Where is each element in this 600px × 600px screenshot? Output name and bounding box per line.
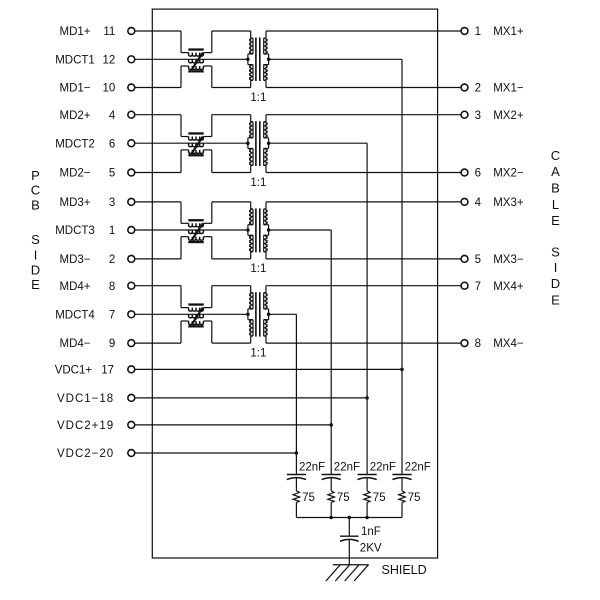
svg-text:22nF: 22nF bbox=[370, 461, 396, 473]
svg-text:4: 4 bbox=[475, 197, 482, 209]
transformer T1 secondary winding bbox=[265, 31, 267, 38]
transformer T4 primary winding bbox=[250, 286, 252, 293]
transformer T1 primary winding bbox=[250, 31, 252, 38]
junction VDC1− to column bbox=[365, 396, 369, 400]
choke L2 winding-sense stroke bbox=[192, 137, 203, 154]
svg-text:MX4−: MX4− bbox=[493, 338, 524, 350]
pin terminal MDCT4 bbox=[128, 311, 135, 318]
capacitor C1 22nF bbox=[287, 474, 306, 476]
junction T4 primary centre tap bbox=[246, 313, 250, 317]
wire choke L3 to transformer T3 primary top bbox=[212, 201, 251, 203]
svg-text:MDCT4: MDCT4 bbox=[55, 309, 95, 321]
junction T3 secondary centre tap bbox=[267, 228, 271, 232]
svg-text:7: 7 bbox=[475, 281, 481, 293]
wire MD2+ jog down bbox=[180, 115, 182, 137]
common-mode choke L1 bbox=[188, 48, 203, 50]
wire MD1+ pin to choke bbox=[135, 30, 181, 32]
transformer T2 core bbox=[255, 121, 257, 166]
wire choke L3 out jog down bbox=[211, 237, 213, 259]
svg-text:B: B bbox=[31, 197, 40, 212]
transformer T1 core bbox=[255, 38, 257, 82]
transformer T3 core bbox=[255, 208, 257, 252]
svg-text:MD3+: MD3+ bbox=[60, 197, 91, 209]
pin terminal VDC1− bbox=[128, 394, 135, 401]
wire choke L1 out jog up bbox=[211, 31, 213, 53]
wire MD4+ pin to choke bbox=[135, 285, 181, 287]
svg-text:MD4−: MD4− bbox=[60, 338, 91, 350]
svg-text:C: C bbox=[551, 148, 560, 163]
wire VDC1+ feed bbox=[135, 368, 402, 370]
wire MD1- jog up bbox=[180, 66, 182, 88]
svg-text:9: 9 bbox=[109, 338, 115, 350]
wire MX4- transformer to pin bbox=[266, 342, 461, 344]
wire MDCT2 pin to primary tap bbox=[135, 142, 248, 144]
wire T2 secondary tap to termination column bbox=[269, 142, 368, 144]
svg-text:S: S bbox=[31, 232, 40, 247]
svg-text:MX2−: MX2− bbox=[493, 168, 524, 180]
wire MD3+ jog down bbox=[180, 202, 182, 223]
svg-text:2: 2 bbox=[475, 83, 481, 95]
module body outline bbox=[152, 9, 437, 558]
svg-text:3: 3 bbox=[109, 197, 115, 209]
wire termination column 2 bbox=[330, 230, 332, 475]
wire MX3- transformer to pin bbox=[266, 258, 461, 260]
transformer T2 secondary winding bbox=[265, 115, 267, 122]
wire MD4- jog up bbox=[180, 321, 182, 343]
svg-text:1nF: 1nF bbox=[361, 526, 381, 538]
svg-text:MX4+: MX4+ bbox=[493, 281, 524, 293]
junction T2 secondary centre tap bbox=[267, 141, 271, 145]
wire choke L1 to transformer T1 primary top bbox=[212, 30, 251, 32]
pin terminal MD2− bbox=[128, 169, 135, 176]
junction rail to C5 bbox=[348, 516, 352, 520]
svg-text:MDCT1: MDCT1 bbox=[55, 54, 95, 66]
svg-text:10: 10 bbox=[103, 83, 116, 95]
junction VDC1+ to column bbox=[400, 368, 404, 372]
svg-text:B: B bbox=[551, 181, 560, 196]
wire R4 to common rail bbox=[401, 503, 403, 518]
pin terminal MD4+ bbox=[128, 282, 135, 289]
wire T1 secondary tap to termination column bbox=[269, 58, 402, 60]
pin terminal MX1+ bbox=[461, 28, 468, 35]
junction rail col3 bbox=[365, 516, 369, 520]
pin terminal MX2− bbox=[461, 169, 468, 176]
junction VDC2+ to column bbox=[329, 423, 333, 427]
svg-text:E: E bbox=[551, 292, 560, 307]
transformer T4 core bbox=[255, 292, 257, 336]
wire MD2+ pin to choke bbox=[135, 114, 181, 116]
pin terminal MDCT1 bbox=[128, 56, 135, 63]
resistor R1 75 bbox=[293, 491, 300, 503]
wire choke L3 out jog up bbox=[211, 202, 213, 223]
svg-text:6: 6 bbox=[109, 138, 115, 150]
svg-text:17: 17 bbox=[101, 365, 114, 377]
common-mode choke L3 bbox=[188, 219, 203, 221]
svg-text:E: E bbox=[31, 277, 40, 292]
svg-text:75: 75 bbox=[302, 492, 315, 504]
svg-text:11: 11 bbox=[103, 26, 115, 38]
pin terminal MD4− bbox=[128, 340, 135, 347]
pin terminal MX4− bbox=[461, 340, 468, 347]
wire MDCT4 pin to primary tap bbox=[135, 313, 248, 315]
pin terminal MD3− bbox=[128, 255, 135, 262]
transformer T4 secondary winding bbox=[265, 286, 267, 293]
svg-text:MD1+: MD1+ bbox=[60, 26, 91, 38]
svg-text:D: D bbox=[551, 276, 560, 291]
pin terminal MX3+ bbox=[461, 198, 468, 205]
junction T3 primary centre tap bbox=[246, 228, 250, 232]
svg-text:MX3−: MX3− bbox=[493, 254, 524, 266]
svg-text:MX3+: MX3+ bbox=[493, 197, 524, 209]
junction T1 primary centre tap bbox=[246, 58, 250, 62]
svg-text:75: 75 bbox=[408, 492, 421, 504]
pin terminal MDCT2 bbox=[128, 140, 135, 147]
resistor R3 75 bbox=[364, 491, 371, 503]
wire MX4+ transformer to pin bbox=[266, 285, 461, 287]
pin terminal MD1− bbox=[128, 84, 135, 91]
wire MD3- jog up bbox=[180, 237, 182, 259]
wire C5 to shield ground bbox=[348, 539, 350, 565]
pin terminal MD2+ bbox=[128, 111, 135, 118]
wire MDCT3 pin to primary tap bbox=[135, 229, 248, 231]
wire choke L4 to transformer T4 primary bottom bbox=[212, 342, 251, 344]
wire MD1- pin to choke bbox=[135, 87, 181, 89]
wire MDCT1 pin to primary tap bbox=[135, 58, 248, 60]
wire choke L4 out jog down bbox=[211, 321, 213, 343]
svg-text:1:1: 1:1 bbox=[250, 263, 266, 275]
wire MD1+ jog down bbox=[180, 31, 182, 53]
wire MX2- transformer to pin bbox=[266, 172, 461, 174]
svg-text:1: 1 bbox=[109, 225, 115, 237]
transformer T3 secondary winding bbox=[265, 202, 267, 209]
svg-text:SHIELD: SHIELD bbox=[382, 563, 427, 577]
svg-text:5: 5 bbox=[109, 168, 115, 180]
wire C4 to R4 bbox=[401, 478, 403, 491]
wire termination column 1 bbox=[295, 314, 297, 474]
svg-text:MD4+: MD4+ bbox=[60, 281, 91, 293]
wire MD4- pin to choke bbox=[135, 342, 181, 344]
wire VDC2− feed bbox=[135, 452, 297, 454]
wire choke L1 to transformer T1 primary bottom bbox=[212, 87, 251, 89]
wire choke L4 to transformer T4 primary top bbox=[212, 285, 251, 287]
svg-text:MD2+: MD2+ bbox=[60, 110, 91, 122]
svg-text:VDC2+19: VDC2+19 bbox=[57, 420, 114, 432]
pin terminal MX2+ bbox=[461, 111, 468, 118]
svg-text:1:1: 1:1 bbox=[250, 347, 266, 359]
choke L1 winding-sense stroke bbox=[192, 53, 203, 70]
svg-text:8: 8 bbox=[109, 281, 115, 293]
svg-text:MX2+: MX2+ bbox=[493, 110, 524, 122]
svg-text:MX1−: MX1− bbox=[493, 83, 524, 95]
pin terminal MD3+ bbox=[128, 198, 135, 205]
wire choke L2 out jog down bbox=[211, 150, 213, 173]
pin terminal VDC2− bbox=[128, 450, 135, 457]
svg-text:6: 6 bbox=[475, 168, 481, 180]
chassis ground SHIELD bbox=[333, 564, 369, 566]
svg-text:3: 3 bbox=[475, 110, 481, 122]
wire choke L4 out jog up bbox=[211, 286, 213, 308]
wire choke L2 to transformer T2 primary bottom bbox=[212, 172, 251, 174]
wire choke L1 out jog down bbox=[211, 66, 213, 88]
wire R3 to common rail bbox=[366, 503, 368, 518]
pin terminal MD1+ bbox=[128, 28, 135, 35]
svg-text:5: 5 bbox=[475, 254, 481, 266]
transformer T3 primary winding bbox=[250, 202, 252, 209]
common-mode choke L2 bbox=[188, 132, 203, 134]
svg-text:22nF: 22nF bbox=[405, 461, 431, 473]
wire MD3- pin to choke bbox=[135, 258, 181, 260]
wire C2 to R2 bbox=[330, 478, 332, 491]
svg-text:E: E bbox=[551, 213, 560, 228]
svg-text:L: L bbox=[552, 197, 559, 212]
pin terminal MX3− bbox=[461, 255, 468, 262]
wire choke L3 to transformer T3 primary bottom bbox=[212, 258, 251, 260]
svg-text:VDC2−20: VDC2−20 bbox=[57, 448, 114, 460]
resistor R4 75 bbox=[399, 491, 406, 503]
wire rail to C5 bbox=[348, 518, 350, 537]
capacitor C2 22nF bbox=[322, 474, 341, 476]
wire C3 to R3 bbox=[366, 478, 368, 491]
pin terminal MDCT3 bbox=[128, 227, 135, 234]
junction rail col2 bbox=[329, 516, 333, 520]
pin terminal MX1− bbox=[461, 84, 468, 91]
svg-text:1:1: 1:1 bbox=[250, 177, 266, 189]
junction VDC2− to column bbox=[295, 451, 299, 455]
svg-text:A: A bbox=[551, 164, 560, 179]
svg-text:I: I bbox=[34, 248, 38, 263]
wire MD2- jog up bbox=[180, 150, 182, 173]
svg-text:VDC1+: VDC1+ bbox=[55, 365, 93, 377]
wire T4 secondary tap to termination column bbox=[269, 313, 297, 315]
wire R1 to common rail bbox=[295, 503, 297, 518]
svg-text:P: P bbox=[31, 168, 40, 183]
svg-text:75: 75 bbox=[337, 492, 350, 504]
wire MX1- transformer to pin bbox=[266, 87, 461, 89]
svg-text:D: D bbox=[31, 262, 40, 277]
svg-text:12: 12 bbox=[103, 54, 116, 66]
svg-text:8: 8 bbox=[475, 338, 481, 350]
junction T1 secondary centre tap bbox=[267, 58, 271, 62]
capacitor C3 22nF bbox=[358, 474, 377, 476]
junction T4 secondary centre tap bbox=[267, 313, 271, 317]
svg-text:MD1−: MD1− bbox=[60, 83, 91, 95]
wire termination column 3 bbox=[366, 143, 368, 474]
wire MD3+ pin to choke bbox=[135, 201, 181, 203]
wire VDC2+ feed bbox=[135, 424, 331, 426]
wire MX2+ transformer to pin bbox=[266, 114, 461, 116]
svg-text:2KV: 2KV bbox=[360, 543, 382, 555]
svg-text:C: C bbox=[31, 183, 40, 198]
wire MX1+ transformer to pin bbox=[266, 30, 461, 32]
junction T2 primary centre tap bbox=[246, 141, 250, 145]
svg-text:4: 4 bbox=[109, 110, 116, 122]
common-mode choke L4 bbox=[188, 303, 203, 305]
pin terminal MX4+ bbox=[461, 282, 468, 289]
wire R2 to common rail bbox=[330, 503, 332, 518]
svg-text:7: 7 bbox=[109, 309, 115, 321]
svg-text:VDC1−18: VDC1−18 bbox=[57, 393, 114, 405]
wire MX3+ transformer to pin bbox=[266, 201, 461, 203]
wire C1 to R1 bbox=[295, 478, 297, 491]
choke L3 winding-sense stroke bbox=[192, 223, 203, 240]
svg-text:1: 1 bbox=[475, 26, 481, 38]
choke L4 winding-sense stroke bbox=[192, 308, 203, 325]
resistor R2 75 bbox=[328, 491, 335, 503]
svg-text:MDCT3: MDCT3 bbox=[55, 225, 95, 237]
wire choke L2 to transformer T2 primary top bbox=[212, 114, 251, 116]
svg-text:22nF: 22nF bbox=[299, 461, 325, 473]
wire MD4+ jog down bbox=[180, 286, 182, 308]
capacitor C5 1nF 2KV bbox=[340, 535, 359, 537]
wire T3 secondary tap to termination column bbox=[269, 229, 332, 231]
svg-text:MD2−: MD2− bbox=[60, 168, 91, 180]
wire termination common rail bbox=[296, 517, 402, 519]
svg-text:22nF: 22nF bbox=[334, 461, 360, 473]
wire VDC1− feed bbox=[135, 397, 367, 399]
capacitor C4 22nF bbox=[392, 474, 411, 476]
wire MD2- pin to choke bbox=[135, 172, 181, 174]
pin terminal VDC1+ bbox=[128, 366, 135, 373]
svg-text:MD3−: MD3− bbox=[60, 254, 91, 266]
svg-text:MX1+: MX1+ bbox=[493, 26, 524, 38]
svg-text:S: S bbox=[551, 245, 560, 260]
svg-text:1:1: 1:1 bbox=[250, 92, 266, 104]
svg-text:MDCT2: MDCT2 bbox=[55, 138, 95, 150]
wire termination column 4 bbox=[401, 59, 403, 474]
wire choke L2 out jog up bbox=[211, 115, 213, 137]
pin terminal VDC2+ bbox=[128, 421, 135, 428]
svg-text:75: 75 bbox=[373, 492, 386, 504]
transformer T2 primary winding bbox=[250, 115, 252, 122]
svg-text:I: I bbox=[554, 260, 558, 275]
svg-text:2: 2 bbox=[109, 254, 115, 266]
